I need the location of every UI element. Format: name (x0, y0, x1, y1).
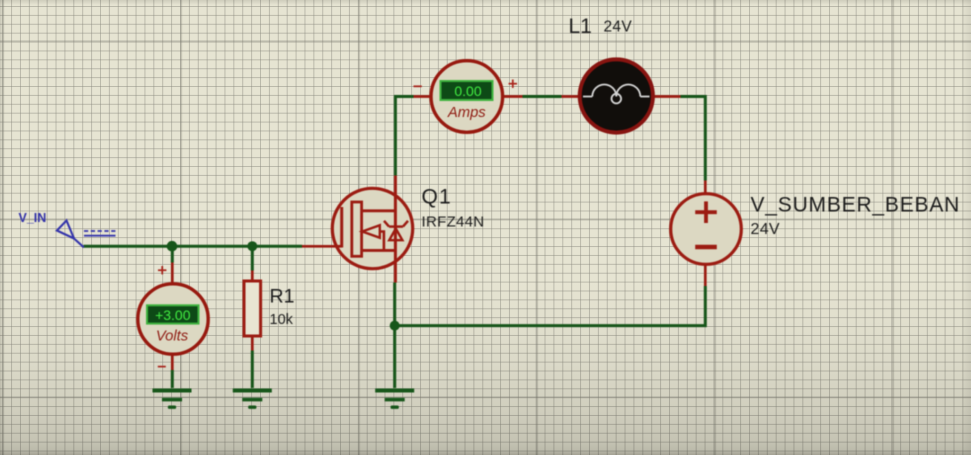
svg-text:10k: 10k (270, 312, 294, 328)
svg-text:24V: 24V (604, 19, 633, 36)
svg-text:IRFZ44N: IRFZ44N (422, 214, 485, 231)
svg-text:24V: 24V (751, 221, 780, 238)
svg-text:L1: L1 (569, 15, 592, 38)
svg-text:R1: R1 (270, 286, 295, 308)
svg-text:Q1: Q1 (422, 186, 452, 209)
svg-text:+3.00: +3.00 (155, 307, 191, 323)
svg-text:0.00: 0.00 (454, 83, 481, 99)
svg-text:V_SUMBER_BEBAN: V_SUMBER_BEBAN (751, 194, 961, 217)
svg-text:V_IN: V_IN (19, 211, 47, 225)
svg-text:Volts: Volts (156, 329, 189, 345)
svg-text:Amps: Amps (447, 105, 486, 121)
